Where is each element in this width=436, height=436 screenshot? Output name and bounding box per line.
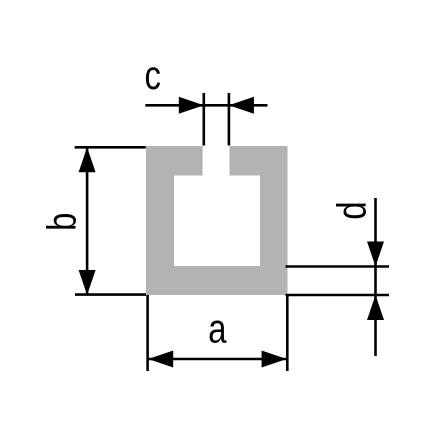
svg-text:c: c	[145, 52, 161, 98]
svg-text:b: b	[38, 213, 84, 231]
svg-text:a: a	[208, 305, 227, 351]
svg-text:d: d	[328, 201, 374, 219]
